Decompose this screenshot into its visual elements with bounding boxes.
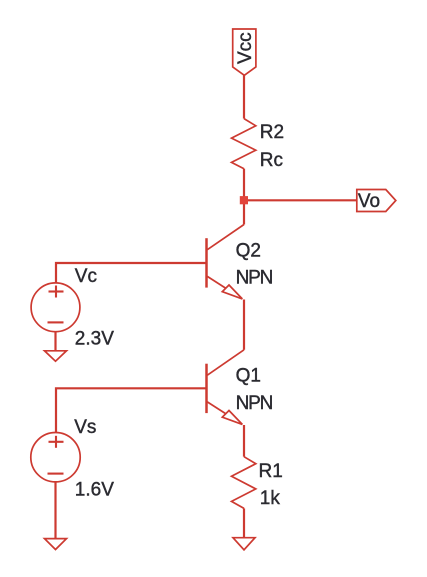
svg-text:Rc: Rc — [260, 150, 283, 171]
svg-text:R2: R2 — [260, 122, 284, 143]
svg-text:2.3V: 2.3V — [75, 328, 114, 349]
svg-text:1.6V: 1.6V — [75, 480, 114, 501]
svg-text:R1: R1 — [259, 461, 283, 482]
svg-text:Q2: Q2 — [236, 240, 261, 261]
svg-text:1k: 1k — [260, 488, 281, 509]
svg-text:Q1: Q1 — [236, 366, 261, 387]
svg-text:NPN: NPN — [236, 268, 273, 289]
svg-text:Vs: Vs — [74, 417, 96, 438]
svg-text:Vcc: Vcc — [235, 32, 256, 64]
svg-text:Vc: Vc — [75, 266, 97, 287]
svg-text:Vo: Vo — [358, 191, 380, 212]
svg-text:NPN: NPN — [236, 393, 273, 414]
